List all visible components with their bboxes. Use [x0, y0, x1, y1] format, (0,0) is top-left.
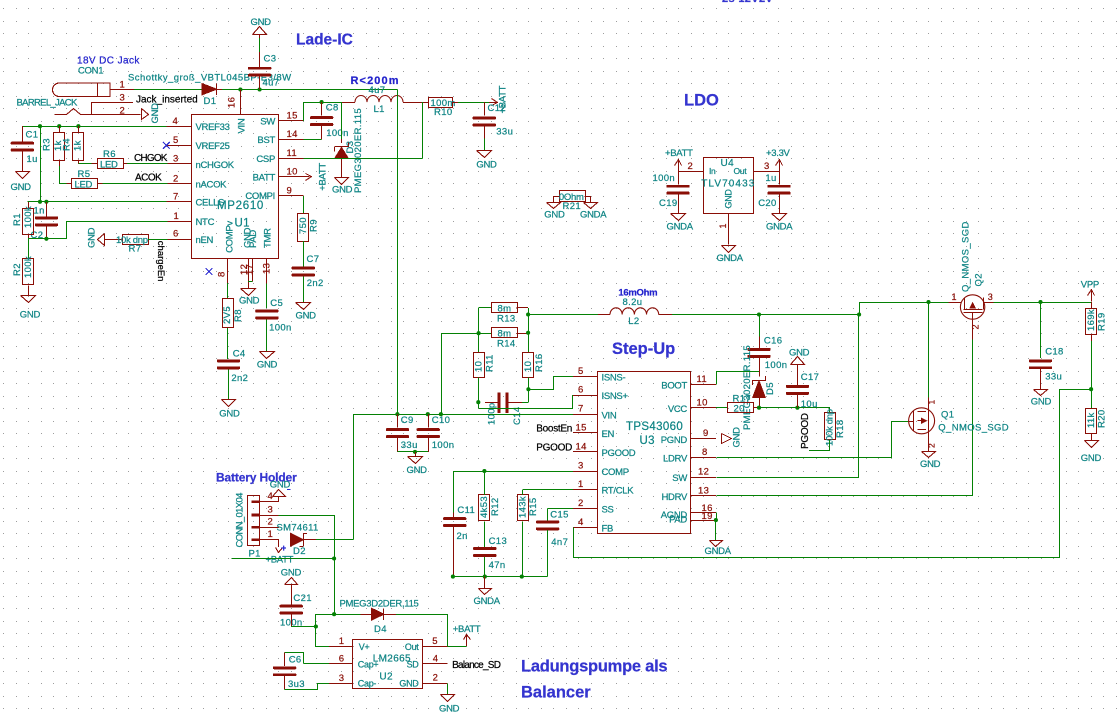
- svg-text:14: 14: [287, 129, 298, 140]
- svg-text:1: 1: [927, 399, 937, 404]
- svg-text:ACOK: ACOK: [135, 173, 162, 184]
- svg-text:VREF33: VREF33: [196, 122, 230, 133]
- svg-text:C13: C13: [489, 536, 507, 547]
- svg-text:GNDA: GNDA: [474, 596, 501, 607]
- svg-text:17: 17: [244, 264, 255, 275]
- svg-text:8: 8: [217, 271, 228, 277]
- svg-text:GND: GND: [439, 703, 460, 714]
- svg-text:C11: C11: [457, 505, 475, 516]
- svg-text:R15: R15: [528, 498, 539, 516]
- svg-text:33u: 33u: [401, 440, 418, 451]
- svg-text:PGOOD: PGOOD: [536, 442, 572, 453]
- svg-text:L1: L1: [374, 104, 385, 115]
- svg-text:D1: D1: [204, 96, 217, 107]
- svg-text:MP2610: MP2610: [217, 200, 264, 212]
- svg-text:7: 7: [173, 192, 179, 203]
- svg-text:Lade-IC: Lade-IC: [296, 32, 353, 49]
- svg-text:PAD: PAD: [248, 230, 259, 248]
- svg-text:11: 11: [697, 374, 708, 385]
- svg-text:C7: C7: [307, 254, 320, 265]
- svg-text:1: 1: [718, 223, 728, 228]
- svg-text:LDO: LDO: [684, 92, 719, 110]
- svg-text:Balance_SD: Balance_SD: [452, 660, 501, 671]
- svg-text:GNDA: GNDA: [705, 546, 732, 557]
- svg-text:R1: R1: [12, 213, 23, 226]
- svg-text:R11: R11: [484, 354, 495, 372]
- svg-text:GND: GND: [296, 310, 317, 321]
- svg-text:PGOOD: PGOOD: [800, 413, 811, 449]
- svg-text:BoostEn: BoostEn: [536, 423, 572, 434]
- svg-text:6: 6: [173, 229, 179, 240]
- svg-text:750: 750: [298, 217, 309, 234]
- svg-text:Out: Out: [734, 166, 748, 176]
- svg-text:Balancer: Balancer: [521, 684, 591, 702]
- svg-text:+: +: [281, 543, 286, 553]
- svg-text:C18: C18: [1045, 347, 1063, 358]
- svg-text:HDRV: HDRV: [661, 492, 688, 503]
- svg-text:1n: 1n: [34, 206, 45, 217]
- svg-text:169k: 169k: [1086, 309, 1097, 331]
- svg-text:GNDA: GNDA: [717, 253, 744, 264]
- svg-text:LED: LED: [100, 160, 118, 171]
- svg-text:GND: GND: [281, 567, 302, 578]
- svg-text:13: 13: [261, 263, 272, 274]
- svg-text:GND: GND: [399, 679, 419, 689]
- svg-text:16: 16: [227, 97, 238, 108]
- svg-text:GND: GND: [544, 209, 565, 220]
- svg-text:3: 3: [988, 292, 993, 302]
- svg-text:1: 1: [120, 80, 126, 91]
- svg-text:1: 1: [339, 636, 345, 647]
- svg-text:BOOT: BOOT: [661, 381, 687, 392]
- svg-text:8.2u: 8.2u: [623, 297, 643, 308]
- svg-text:Jack_inserted: Jack_inserted: [136, 95, 198, 106]
- svg-text:R8: R8: [233, 309, 244, 322]
- svg-text:2: 2: [268, 517, 274, 528]
- svg-text:9: 9: [703, 428, 709, 439]
- svg-text:5: 5: [578, 366, 584, 377]
- svg-text:COMP: COMP: [602, 467, 629, 478]
- svg-text:1u: 1u: [27, 154, 38, 165]
- svg-text:Step-Up: Step-Up: [612, 340, 675, 358]
- svg-text:nEN: nEN: [196, 235, 214, 246]
- svg-text:VIN: VIN: [237, 118, 248, 133]
- svg-text:2n: 2n: [457, 531, 468, 542]
- svg-text:GND: GND: [87, 227, 98, 248]
- svg-text:LED: LED: [75, 179, 93, 190]
- svg-text:Q2: Q2: [974, 273, 985, 286]
- svg-text:12: 12: [698, 467, 709, 478]
- svg-text:C5: C5: [270, 298, 283, 309]
- svg-text:V+: V+: [359, 642, 370, 652]
- svg-text:R17: R17: [733, 394, 751, 405]
- svg-text:C15: C15: [550, 510, 568, 521]
- svg-text:R9: R9: [309, 219, 320, 232]
- svg-text:1: 1: [268, 529, 274, 540]
- svg-text:NTC: NTC: [196, 217, 215, 228]
- svg-text:10: 10: [473, 361, 484, 372]
- svg-text:R19: R19: [1096, 313, 1107, 331]
- svg-text:4: 4: [268, 491, 274, 502]
- svg-text:U2: U2: [379, 672, 393, 683]
- svg-text:Out: Out: [405, 642, 419, 652]
- svg-text:GND: GND: [407, 465, 428, 476]
- svg-text:Cap-: Cap-: [358, 679, 377, 689]
- svg-text:9: 9: [287, 186, 293, 197]
- svg-text:BATT: BATT: [253, 173, 276, 184]
- svg-text:10u: 10u: [801, 399, 818, 410]
- svg-text:C9: C9: [401, 415, 414, 426]
- svg-text:143k: 143k: [518, 496, 529, 518]
- svg-text:D5: D5: [765, 382, 776, 395]
- svg-text:19: 19: [702, 511, 713, 522]
- svg-text:4u7: 4u7: [263, 78, 280, 89]
- svg-text:ISNS-: ISNS-: [602, 373, 626, 384]
- svg-text:4u7: 4u7: [369, 85, 386, 96]
- svg-text:GND: GND: [150, 103, 161, 124]
- svg-text:VREF25: VREF25: [196, 141, 230, 152]
- svg-text:R13: R13: [497, 314, 515, 325]
- svg-text:2: 2: [578, 498, 584, 509]
- svg-text:1u: 1u: [765, 173, 776, 184]
- svg-text:U1: U1: [235, 218, 250, 230]
- svg-text:3: 3: [339, 673, 345, 684]
- svg-text:LDRV: LDRV: [663, 454, 688, 465]
- svg-text:PMEG3020ER.115: PMEG3020ER.115: [353, 108, 364, 193]
- svg-text:SW: SW: [672, 473, 687, 484]
- svg-text:2: 2: [927, 443, 937, 448]
- svg-text:RT/CLK: RT/CLK: [602, 486, 635, 497]
- svg-text:R20: R20: [1097, 410, 1108, 428]
- svg-text:ISNS+: ISNS+: [602, 391, 629, 402]
- svg-text:33u: 33u: [1045, 371, 1062, 382]
- svg-text:5: 5: [432, 636, 438, 647]
- svg-text:4: 4: [433, 654, 439, 665]
- svg-text:15: 15: [287, 111, 298, 122]
- svg-text:100n: 100n: [432, 440, 455, 451]
- svg-text:2n2: 2n2: [231, 373, 248, 384]
- svg-text:GND: GND: [270, 480, 291, 491]
- svg-text:GND: GND: [20, 310, 41, 321]
- svg-text:3: 3: [578, 461, 584, 472]
- svg-text:2: 2: [688, 161, 694, 172]
- svg-text:R14: R14: [497, 339, 515, 350]
- svg-text:C16: C16: [764, 336, 782, 347]
- svg-text:GNDA: GNDA: [667, 222, 694, 233]
- svg-text:GND: GND: [724, 189, 734, 209]
- svg-text:CON1: CON1: [78, 66, 103, 77]
- svg-text:+BATT: +BATT: [317, 163, 328, 191]
- svg-text:100k: 100k: [23, 256, 34, 278]
- svg-text:FB: FB: [602, 524, 614, 535]
- svg-text:10: 10: [523, 361, 534, 372]
- svg-text:3: 3: [120, 93, 126, 104]
- svg-text:4k53: 4k53: [479, 496, 490, 518]
- svg-text:TLV70433: TLV70433: [701, 179, 755, 190]
- svg-text:C4: C4: [233, 349, 246, 360]
- svg-text:C1: C1: [26, 130, 39, 141]
- svg-text:nCHGOK: nCHGOK: [196, 160, 235, 171]
- svg-text:PGND: PGND: [661, 435, 688, 446]
- svg-text:GND: GND: [11, 182, 32, 193]
- svg-text:PMEG3D2DER,115: PMEG3D2DER,115: [340, 598, 419, 609]
- svg-text:+BATT: +BATT: [453, 624, 481, 635]
- svg-text:47n: 47n: [489, 560, 506, 571]
- svg-text:2s 12V2V: 2s 12V2V: [722, 0, 773, 5]
- svg-text:BARREL_JACK: BARREL_JACK: [17, 98, 78, 109]
- svg-text:15: 15: [576, 422, 587, 433]
- svg-text:U4: U4: [721, 158, 735, 169]
- svg-text:R4: R4: [62, 138, 73, 151]
- svg-text:LM2665: LM2665: [373, 654, 411, 665]
- svg-text:Q_NMOS_SGD: Q_NMOS_SGD: [938, 423, 1009, 434]
- svg-text:VIN: VIN: [602, 410, 617, 421]
- svg-text:4: 4: [173, 116, 179, 127]
- svg-text:GND: GND: [332, 185, 353, 196]
- svg-text:+BATT: +BATT: [266, 555, 294, 566]
- svg-text:GND: GND: [239, 295, 260, 306]
- svg-text:13: 13: [698, 486, 709, 497]
- svg-text:BST: BST: [257, 135, 275, 146]
- svg-text:C6: C6: [289, 654, 302, 665]
- svg-text:10: 10: [697, 397, 708, 408]
- svg-text:2n2: 2n2: [307, 278, 324, 289]
- svg-text:PMEG3020ER.115: PMEG3020ER.115: [742, 345, 753, 430]
- svg-text:In: In: [709, 166, 716, 176]
- svg-text:R6: R6: [103, 149, 116, 160]
- svg-text:100p: 100p: [486, 402, 497, 425]
- svg-text:R21: R21: [563, 201, 581, 212]
- svg-text:7: 7: [578, 404, 584, 415]
- svg-text:CSP: CSP: [256, 154, 275, 165]
- svg-text:Q_NMOS_SGD: Q_NMOS_SGD: [961, 221, 972, 292]
- svg-text:C21: C21: [293, 593, 311, 604]
- svg-text:VCC: VCC: [668, 404, 688, 415]
- svg-text:3: 3: [173, 154, 179, 165]
- svg-text:EN: EN: [602, 429, 615, 440]
- svg-text:D4: D4: [374, 624, 387, 635]
- svg-text:D2: D2: [293, 546, 306, 557]
- svg-text:R7: R7: [129, 244, 142, 255]
- svg-text:3: 3: [764, 161, 770, 172]
- svg-text:C2: C2: [31, 230, 44, 241]
- svg-text:3: 3: [268, 504, 274, 515]
- svg-text:+BATT: +BATT: [665, 148, 693, 159]
- svg-text:GND: GND: [732, 427, 743, 448]
- svg-text:GND: GND: [257, 360, 278, 371]
- svg-text:11: 11: [287, 148, 298, 159]
- svg-text:R18: R18: [835, 420, 846, 438]
- svg-text:C17: C17: [801, 372, 819, 383]
- svg-text:100k: 100k: [23, 206, 34, 228]
- svg-text:Ladungspumpe als: Ladungspumpe als: [521, 658, 667, 676]
- svg-text:C3: C3: [264, 54, 277, 65]
- svg-text:R2: R2: [12, 263, 23, 276]
- svg-text:C8: C8: [326, 103, 339, 114]
- svg-text:1k: 1k: [73, 140, 84, 151]
- svg-text:8: 8: [702, 447, 708, 458]
- svg-text:14: 14: [576, 441, 587, 452]
- svg-text:TPS43060: TPS43060: [626, 421, 683, 433]
- svg-text:2: 2: [173, 174, 179, 185]
- svg-text:1: 1: [174, 211, 180, 222]
- svg-text:C19: C19: [659, 198, 677, 209]
- svg-text:GND: GND: [1031, 397, 1052, 408]
- svg-text:100n: 100n: [269, 323, 292, 334]
- svg-text:C12: C12: [488, 103, 506, 114]
- svg-text:GND: GND: [219, 409, 240, 420]
- svg-text:4n7: 4n7: [551, 537, 568, 548]
- svg-text:nACOK: nACOK: [196, 180, 228, 191]
- svg-text:100n: 100n: [653, 173, 676, 184]
- svg-text:C10: C10: [432, 415, 450, 426]
- svg-text:VPP: VPP: [1081, 280, 1099, 291]
- svg-text:L2: L2: [628, 316, 639, 327]
- svg-text:GND: GND: [476, 160, 497, 171]
- svg-text:TMR: TMR: [263, 228, 274, 248]
- svg-text:SM74611: SM74611: [277, 523, 319, 534]
- svg-text:1: 1: [952, 292, 957, 302]
- svg-text:PAD: PAD: [669, 515, 687, 526]
- svg-text:R3: R3: [42, 138, 53, 151]
- svg-text:C14: C14: [512, 407, 523, 425]
- svg-text:100n: 100n: [326, 128, 349, 139]
- svg-text:2: 2: [433, 673, 439, 684]
- svg-text:6: 6: [578, 385, 584, 396]
- svg-text:GNDA: GNDA: [766, 222, 793, 233]
- svg-text:Q1: Q1: [941, 410, 954, 421]
- svg-text:6: 6: [339, 654, 345, 665]
- svg-text:R10: R10: [434, 107, 452, 118]
- svg-text:CHGOK: CHGOK: [134, 153, 168, 164]
- svg-text:2V5: 2V5: [222, 306, 233, 324]
- svg-text:+3.3V: +3.3V: [766, 148, 791, 159]
- svg-text:5: 5: [173, 135, 179, 146]
- svg-text:R16: R16: [534, 354, 545, 372]
- svg-text:4: 4: [578, 517, 584, 528]
- svg-text:P1: P1: [249, 549, 261, 560]
- svg-text:11k: 11k: [1086, 412, 1097, 428]
- svg-text:SW: SW: [260, 117, 275, 128]
- svg-text:2: 2: [971, 324, 981, 329]
- svg-text:GND: GND: [251, 17, 272, 28]
- svg-text:GNDA: GNDA: [580, 209, 607, 220]
- svg-text:U3: U3: [640, 435, 655, 447]
- svg-text:C20: C20: [758, 198, 776, 209]
- svg-text:10: 10: [287, 167, 298, 178]
- svg-text:20: 20: [734, 403, 745, 414]
- svg-text:GND: GND: [920, 459, 941, 470]
- svg-text:SS: SS: [602, 505, 614, 516]
- svg-text:100n: 100n: [765, 360, 788, 371]
- svg-text:R12: R12: [490, 498, 501, 516]
- svg-text:CONN_01X04: CONN_01X04: [235, 493, 246, 548]
- svg-text:3u3: 3u3: [288, 679, 305, 690]
- svg-text:33u: 33u: [496, 127, 513, 138]
- svg-text:GND: GND: [789, 347, 810, 358]
- svg-text:PGOOD: PGOOD: [602, 448, 636, 459]
- svg-text:chargeEn: chargeEn: [155, 241, 166, 282]
- svg-text:GND: GND: [1081, 453, 1102, 464]
- svg-text:1: 1: [578, 479, 584, 490]
